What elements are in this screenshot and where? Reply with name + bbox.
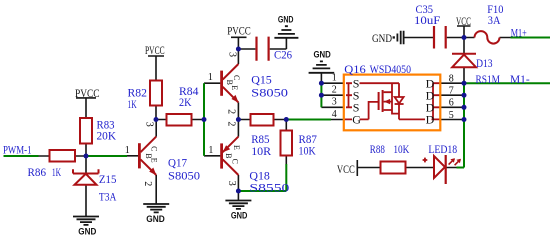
svg-text:1: 1 (208, 72, 213, 83)
svg-text:1K: 1K (128, 97, 137, 111)
svg-text:R88: R88 (370, 142, 385, 156)
svg-text:LED18: LED18 (428, 142, 457, 156)
svg-text:Z15: Z15 (99, 172, 117, 186)
svg-text:S8050: S8050 (168, 169, 200, 183)
svg-text:GND: GND (146, 214, 165, 224)
svg-text:GND: GND (78, 227, 96, 237)
svg-text:3A: 3A (488, 13, 501, 27)
svg-text:PVCC: PVCC (145, 43, 165, 57)
svg-text:2: 2 (226, 109, 237, 114)
svg-text:Q16: Q16 (344, 62, 366, 76)
svg-text:10K: 10K (393, 142, 409, 156)
svg-text:1: 1 (125, 145, 130, 156)
svg-text:D: D (426, 113, 435, 127)
svg-text:R86: R86 (28, 165, 47, 179)
svg-text:3: 3 (332, 97, 337, 108)
svg-text:GND: GND (231, 211, 248, 221)
svg-text:M1+: M1+ (511, 26, 527, 40)
svg-text:8: 8 (449, 74, 454, 85)
svg-text:2K: 2K (179, 95, 192, 109)
svg-text:2: 2 (226, 121, 237, 126)
svg-text:PVCC: PVCC (227, 24, 251, 38)
svg-text:E: E (230, 85, 239, 90)
svg-text:7: 7 (449, 86, 454, 97)
svg-text:2: 2 (142, 181, 153, 186)
svg-text:VCC: VCC (456, 14, 471, 28)
svg-text:WSD4050: WSD4050 (370, 62, 411, 76)
svg-text:M1-: M1- (510, 72, 530, 86)
svg-text:3: 3 (144, 122, 155, 127)
svg-text:1: 1 (208, 145, 213, 156)
svg-text:Q15: Q15 (251, 72, 272, 86)
svg-text:20K: 20K (97, 129, 117, 143)
svg-text:S8550: S8550 (249, 181, 289, 195)
svg-text:Q17: Q17 (168, 155, 187, 169)
svg-text:GND: GND (314, 50, 332, 60)
svg-text:1K: 1K (52, 165, 61, 179)
svg-text:G: G (352, 113, 361, 127)
svg-text:5: 5 (449, 110, 454, 121)
svg-text:C26: C26 (274, 48, 292, 62)
svg-text:S8050: S8050 (251, 86, 288, 100)
svg-text:2: 2 (332, 85, 337, 96)
svg-text:VCC: VCC (337, 162, 355, 176)
svg-text:C: C (231, 159, 240, 164)
svg-text:1: 1 (332, 72, 337, 83)
svg-text:10uF: 10uF (414, 13, 441, 27)
svg-text:GND: GND (278, 14, 294, 24)
svg-text:4: 4 (332, 109, 337, 120)
svg-text:6: 6 (449, 98, 454, 109)
svg-text:PVCC: PVCC (75, 86, 100, 100)
svg-text:E: E (232, 145, 241, 150)
svg-text:T3A: T3A (99, 189, 117, 203)
svg-text:RS1M: RS1M (476, 72, 501, 86)
svg-text:3: 3 (227, 52, 238, 57)
svg-text:C: C (150, 146, 159, 151)
svg-text:10R: 10R (251, 144, 271, 158)
svg-text:B: B (225, 80, 234, 85)
svg-text:10K: 10K (299, 144, 316, 158)
svg-text:3: 3 (226, 181, 237, 186)
svg-text:GND: GND (372, 31, 392, 45)
svg-text:D13: D13 (476, 56, 493, 70)
svg-text:PWM-1: PWM-1 (3, 142, 32, 156)
svg-text:E: E (150, 158, 159, 163)
